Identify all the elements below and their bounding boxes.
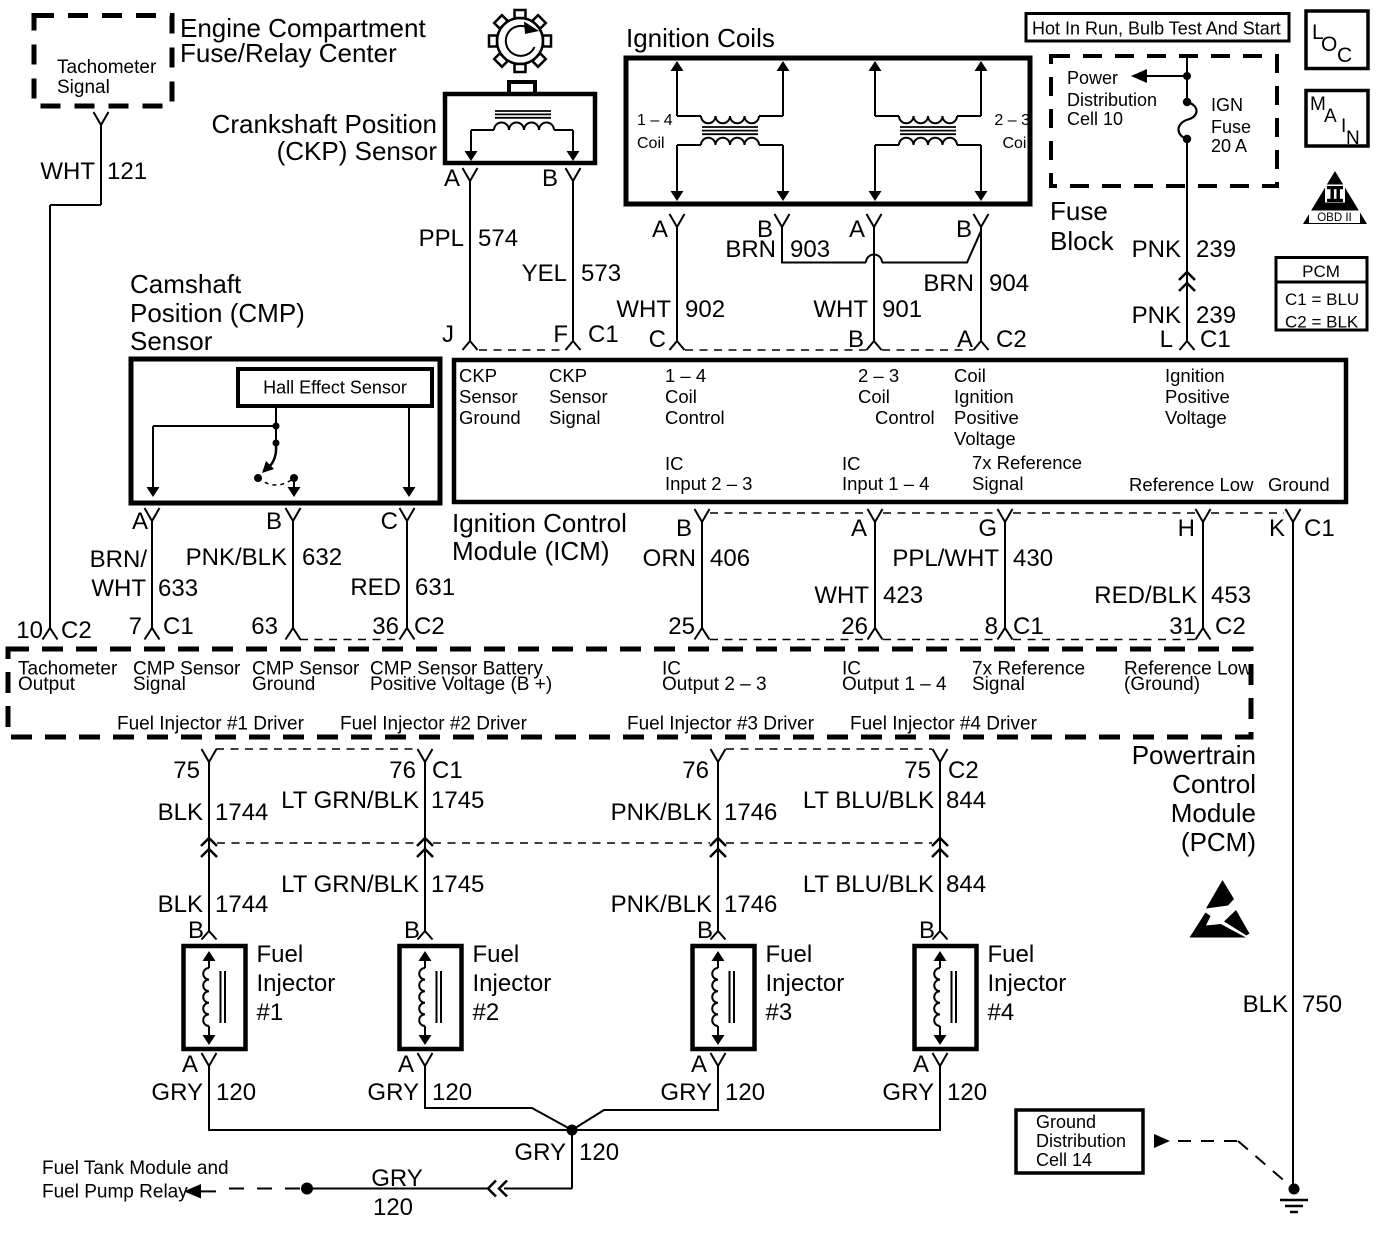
- svg-text:1746: 1746: [724, 891, 777, 918]
- svg-text:F: F: [553, 321, 568, 348]
- svg-text:BRN: BRN: [923, 270, 974, 297]
- svg-text:WHT: WHT: [813, 296, 868, 323]
- svg-text:C2: C2: [61, 617, 92, 644]
- svg-text:Injector: Injector: [766, 970, 845, 997]
- svg-text:C1: C1: [432, 757, 463, 784]
- svg-text:B: B: [404, 917, 420, 944]
- svg-text:120: 120: [373, 1194, 413, 1221]
- svg-text:B: B: [188, 917, 204, 944]
- svg-text:Positive: Positive: [954, 407, 1019, 428]
- svg-text:L: L: [1160, 326, 1173, 353]
- svg-text:574: 574: [478, 225, 518, 252]
- svg-text:C: C: [649, 326, 666, 353]
- svg-text:GRY: GRY: [151, 1079, 203, 1106]
- svg-text:Positive: Positive: [1165, 386, 1230, 407]
- svg-text:7: 7: [129, 613, 142, 640]
- svg-text:IC: IC: [842, 453, 861, 474]
- svg-text:(PCM): (PCM): [1181, 827, 1256, 857]
- svg-text:J: J: [442, 321, 454, 348]
- svg-text:430: 430: [1013, 545, 1053, 572]
- svg-text:A: A: [851, 515, 867, 542]
- svg-text:Hot In Run, Bulb Test And Star: Hot In Run, Bulb Test And Start: [1032, 19, 1281, 39]
- svg-text:WHT: WHT: [616, 296, 671, 323]
- svg-text:423: 423: [883, 582, 923, 609]
- svg-text:C1: C1: [163, 613, 194, 640]
- svg-text:PNK/BLK: PNK/BLK: [186, 544, 287, 571]
- svg-text:844: 844: [946, 787, 986, 814]
- svg-text:A: A: [652, 216, 668, 243]
- svg-text:Input 2 – 3: Input 2 – 3: [665, 473, 752, 494]
- svg-text:Output 2 – 3: Output 2 – 3: [662, 674, 767, 695]
- svg-text:25: 25: [668, 613, 695, 640]
- svg-text:75: 75: [904, 757, 931, 784]
- svg-text:Voltage: Voltage: [1165, 407, 1227, 428]
- svg-text:WHT: WHT: [91, 575, 146, 602]
- svg-text:Fuse/Relay Center: Fuse/Relay Center: [180, 38, 397, 68]
- svg-text:Positive Voltage (B +): Positive Voltage (B +): [370, 674, 552, 695]
- svg-text:Distribution: Distribution: [1067, 90, 1157, 110]
- svg-text:Fuel Injector #4 Driver: Fuel Injector #4 Driver: [850, 714, 1038, 735]
- svg-text:Ground: Ground: [252, 674, 315, 695]
- svg-text:Voltage: Voltage: [954, 428, 1016, 449]
- svg-text:GRY: GRY: [660, 1079, 712, 1106]
- svg-text:Cell 14: Cell 14: [1036, 1150, 1092, 1170]
- svg-text:CKP: CKP: [549, 365, 587, 386]
- svg-text:#2: #2: [473, 999, 500, 1026]
- svg-text:Coil: Coil: [1002, 135, 1030, 152]
- svg-text:GRY: GRY: [367, 1079, 419, 1106]
- svg-text:Ground: Ground: [1036, 1112, 1096, 1132]
- svg-text:BLK: BLK: [158, 799, 203, 826]
- svg-text:C: C: [1337, 44, 1352, 67]
- svg-text:C: C: [381, 508, 398, 535]
- svg-text:N: N: [1346, 128, 1360, 149]
- svg-text:BRN/: BRN/: [90, 546, 148, 573]
- svg-text:7x Reference: 7x Reference: [972, 452, 1082, 473]
- svg-text:G: G: [978, 515, 997, 542]
- svg-text:120: 120: [579, 1139, 619, 1166]
- svg-text:844: 844: [946, 871, 986, 898]
- svg-text:Ignition: Ignition: [954, 386, 1014, 407]
- svg-text:Sensor: Sensor: [549, 386, 608, 407]
- svg-text:Ignition Coils: Ignition Coils: [626, 23, 775, 53]
- svg-text:B: B: [676, 515, 692, 542]
- svg-text:LT GRN/BLK: LT GRN/BLK: [281, 787, 419, 814]
- svg-text:OBD II: OBD II: [1317, 212, 1352, 224]
- svg-text:2 – 3: 2 – 3: [858, 365, 899, 386]
- svg-text:120: 120: [432, 1079, 472, 1106]
- svg-text:Fuse: Fuse: [1211, 117, 1251, 137]
- svg-text:903: 903: [790, 236, 830, 263]
- svg-text:Cell 10: Cell 10: [1067, 109, 1123, 129]
- svg-text:1 – 4: 1 – 4: [637, 112, 673, 129]
- svg-text:Fuel Injector #2 Driver: Fuel Injector #2 Driver: [340, 714, 528, 735]
- svg-text:WHT: WHT: [814, 582, 869, 609]
- svg-text:Coil: Coil: [954, 365, 986, 386]
- svg-text:Camshaft: Camshaft: [130, 269, 242, 299]
- svg-text:75: 75: [173, 757, 200, 784]
- svg-text:A: A: [132, 508, 148, 535]
- svg-text:O: O: [1321, 33, 1337, 56]
- svg-text:Power: Power: [1067, 68, 1118, 88]
- svg-text:PNK: PNK: [1132, 236, 1181, 263]
- svg-text:76: 76: [682, 757, 709, 784]
- svg-text:Input 1 – 4: Input 1 – 4: [842, 473, 929, 494]
- svg-text:B: B: [542, 165, 558, 192]
- svg-text:1746: 1746: [724, 799, 777, 826]
- svg-text:901: 901: [882, 296, 922, 323]
- svg-text:A: A: [182, 1051, 198, 1078]
- svg-text:10: 10: [16, 617, 43, 644]
- svg-text:453: 453: [1211, 582, 1251, 609]
- svg-text:Block: Block: [1050, 226, 1115, 256]
- svg-text:Injector: Injector: [988, 970, 1067, 997]
- svg-text:H: H: [1178, 515, 1195, 542]
- svg-text:Injector: Injector: [473, 970, 552, 997]
- svg-text:120: 120: [216, 1079, 256, 1106]
- svg-text:Signal: Signal: [57, 77, 110, 98]
- svg-text:750: 750: [1302, 991, 1342, 1018]
- svg-text:A: A: [691, 1051, 707, 1078]
- svg-text:RED: RED: [350, 574, 401, 601]
- svg-text:(Ground): (Ground): [1124, 674, 1200, 695]
- svg-text:Fuel Tank Module and: Fuel Tank Module and: [42, 1158, 229, 1179]
- svg-text:C2: C2: [414, 613, 445, 640]
- svg-text:Injector: Injector: [257, 970, 336, 997]
- svg-text:ORN: ORN: [643, 545, 696, 572]
- svg-text:121: 121: [107, 158, 147, 185]
- svg-text:Signal: Signal: [972, 473, 1023, 494]
- svg-text:WHT: WHT: [40, 158, 95, 185]
- svg-text:C1: C1: [1304, 515, 1335, 542]
- svg-text:Fuel: Fuel: [473, 941, 520, 968]
- svg-text:BLK: BLK: [158, 891, 203, 918]
- svg-text:406: 406: [710, 545, 750, 572]
- svg-text:Reference Low: Reference Low: [1129, 474, 1254, 495]
- svg-text:120: 120: [725, 1079, 765, 1106]
- svg-text:Fuse: Fuse: [1050, 196, 1108, 226]
- svg-text:1744: 1744: [215, 799, 268, 826]
- svg-text:633: 633: [158, 575, 198, 602]
- svg-text:Ground: Ground: [459, 407, 521, 428]
- svg-text:#1: #1: [257, 999, 284, 1026]
- svg-text:Signal: Signal: [972, 674, 1025, 695]
- svg-text:GRY: GRY: [882, 1079, 934, 1106]
- svg-text:Fuel: Fuel: [988, 941, 1035, 968]
- svg-text:A: A: [1324, 106, 1337, 127]
- svg-text:36: 36: [372, 613, 399, 640]
- svg-text:BRN: BRN: [725, 236, 776, 263]
- svg-text:Control: Control: [1172, 769, 1256, 799]
- svg-text:Output 1 – 4: Output 1 – 4: [842, 674, 947, 695]
- svg-text:Ground: Ground: [1268, 474, 1330, 495]
- svg-text:31: 31: [1169, 613, 1196, 640]
- svg-text:C2 = BLK: C2 = BLK: [1285, 313, 1359, 332]
- svg-text:632: 632: [302, 544, 342, 571]
- svg-text:PPL: PPL: [419, 225, 464, 252]
- svg-text:631: 631: [415, 574, 455, 601]
- svg-text:PNK/BLK: PNK/BLK: [611, 799, 712, 826]
- svg-text:A: A: [957, 326, 973, 353]
- svg-text:904: 904: [989, 270, 1029, 297]
- svg-text:Fuel: Fuel: [766, 941, 813, 968]
- svg-text:Fuel Injector #1 Driver: Fuel Injector #1 Driver: [117, 714, 305, 735]
- svg-text:IGN: IGN: [1211, 95, 1243, 115]
- svg-text:Coil: Coil: [665, 386, 697, 407]
- svg-text:Fuel Injector #3 Driver: Fuel Injector #3 Driver: [627, 714, 815, 735]
- svg-text:PPL/WHT: PPL/WHT: [892, 545, 999, 572]
- svg-text:26: 26: [841, 613, 868, 640]
- svg-text:2 – 3: 2 – 3: [994, 112, 1030, 129]
- svg-text:A: A: [849, 216, 865, 243]
- svg-text:GRY: GRY: [371, 1165, 423, 1192]
- svg-text:LT BLU/BLK: LT BLU/BLK: [803, 787, 934, 814]
- svg-text:C1 = BLU: C1 = BLU: [1285, 290, 1359, 309]
- svg-text:Sensor: Sensor: [459, 386, 518, 407]
- svg-text:Position (CMP): Position (CMP): [130, 298, 305, 328]
- svg-text:CKP: CKP: [459, 365, 497, 386]
- svg-text:B: B: [956, 216, 972, 243]
- svg-text:20 A: 20 A: [1211, 136, 1247, 156]
- svg-text:GRY: GRY: [514, 1139, 566, 1166]
- svg-text:Coil: Coil: [637, 135, 665, 152]
- svg-text:A: A: [398, 1051, 414, 1078]
- svg-text:Crankshaft Position: Crankshaft Position: [212, 109, 437, 139]
- svg-text:Fuel: Fuel: [257, 941, 304, 968]
- svg-text:C2: C2: [996, 326, 1027, 353]
- svg-text:902: 902: [685, 296, 725, 323]
- svg-text:Hall Effect Sensor: Hall Effect Sensor: [263, 378, 407, 398]
- svg-text:YEL: YEL: [522, 260, 567, 287]
- svg-text:Module: Module: [1171, 798, 1256, 828]
- svg-text:C2: C2: [948, 757, 979, 784]
- svg-text:Control: Control: [875, 407, 935, 428]
- svg-text:Output: Output: [18, 674, 76, 695]
- svg-text:Control: Control: [665, 407, 725, 428]
- svg-text:76: 76: [389, 757, 416, 784]
- svg-text:LT GRN/BLK: LT GRN/BLK: [281, 871, 419, 898]
- svg-text:Module (ICM): Module (ICM): [452, 536, 609, 566]
- svg-text:B: B: [848, 326, 864, 353]
- svg-text:#4: #4: [988, 999, 1015, 1026]
- svg-text:63: 63: [251, 613, 278, 640]
- svg-text:#3: #3: [766, 999, 793, 1026]
- svg-text:Signal: Signal: [133, 674, 186, 695]
- svg-text:Ignition: Ignition: [1165, 365, 1225, 386]
- svg-text:C1: C1: [1200, 326, 1231, 353]
- svg-text:(CKP) Sensor: (CKP) Sensor: [277, 136, 438, 166]
- svg-text:Signal: Signal: [549, 407, 600, 428]
- svg-text:LT BLU/BLK: LT BLU/BLK: [803, 871, 934, 898]
- svg-text:C1: C1: [588, 321, 619, 348]
- svg-text:B: B: [266, 508, 282, 535]
- svg-text:1745: 1745: [431, 787, 484, 814]
- svg-text:120: 120: [947, 1079, 987, 1106]
- svg-text:Distribution: Distribution: [1036, 1131, 1126, 1151]
- svg-text:B: B: [919, 917, 935, 944]
- svg-text:1 – 4: 1 – 4: [665, 365, 706, 386]
- svg-text:RED/BLK: RED/BLK: [1094, 582, 1197, 609]
- svg-text:573: 573: [581, 260, 621, 287]
- svg-text:Coil: Coil: [858, 386, 890, 407]
- svg-text:239: 239: [1196, 302, 1236, 329]
- svg-text:B: B: [697, 917, 713, 944]
- svg-text:Fuel Pump Relay: Fuel Pump Relay: [42, 1182, 188, 1203]
- svg-text:1744: 1744: [215, 891, 268, 918]
- svg-text:C2: C2: [1215, 613, 1246, 640]
- svg-text:Powertrain: Powertrain: [1132, 740, 1256, 770]
- svg-text:8: 8: [985, 613, 998, 640]
- svg-text:A: A: [444, 165, 460, 192]
- svg-text:Sensor: Sensor: [130, 326, 213, 356]
- svg-text:C1: C1: [1013, 613, 1044, 640]
- svg-text:PCM: PCM: [1302, 262, 1340, 281]
- svg-text:IC: IC: [665, 453, 684, 474]
- svg-text:BLK: BLK: [1243, 991, 1288, 1018]
- svg-text:A: A: [913, 1051, 929, 1078]
- svg-text:1745: 1745: [431, 871, 484, 898]
- svg-text:K: K: [1269, 515, 1285, 542]
- svg-text:239: 239: [1196, 236, 1236, 263]
- svg-text:Ignition Control: Ignition Control: [452, 508, 627, 538]
- svg-text:PNK/BLK: PNK/BLK: [611, 891, 712, 918]
- svg-text:Tachometer: Tachometer: [57, 57, 157, 78]
- svg-text:PNK: PNK: [1132, 302, 1181, 329]
